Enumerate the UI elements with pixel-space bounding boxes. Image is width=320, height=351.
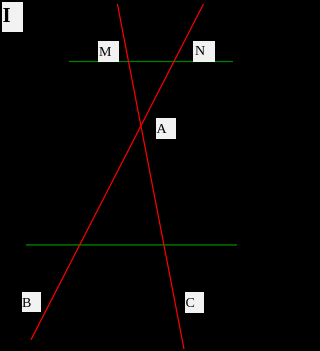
green parallel line (MN) top xyxy=(69,61,233,63)
red line (A C) from top through A to C xyxy=(117,4,184,349)
red line (A B) from top-right through A to B xyxy=(31,4,204,340)
border frame xyxy=(0,0,238,351)
green parallel line bottom xyxy=(26,244,237,246)
label C xyxy=(185,292,204,313)
wire / lines layer xyxy=(0,0,238,351)
label B xyxy=(22,292,41,312)
label N xyxy=(193,41,215,62)
label A (intersection point) xyxy=(156,118,176,139)
label M xyxy=(98,41,119,62)
label I xyxy=(2,2,23,32)
